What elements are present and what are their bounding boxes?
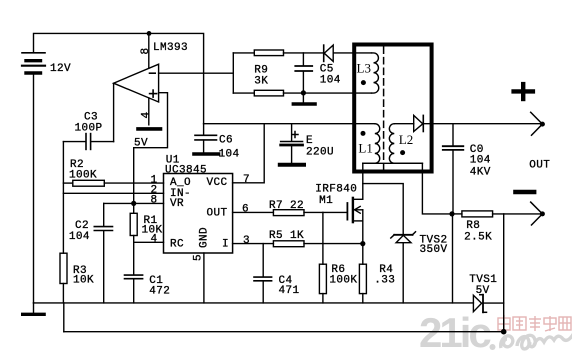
svg-text:220U: 220U: [306, 146, 334, 158]
svg-text:IRF840: IRF840: [315, 184, 357, 196]
svg-text:100K: 100K: [69, 170, 97, 182]
svg-text:L1: L1: [358, 141, 372, 156]
svg-text:100P: 100P: [75, 122, 103, 134]
svg-text:OUT: OUT: [529, 160, 550, 172]
svg-text:2.5K: 2.5K: [464, 232, 492, 244]
svg-text:471: 471: [279, 285, 300, 297]
svg-text:OUT: OUT: [207, 207, 228, 219]
svg-text:5V: 5V: [476, 285, 490, 297]
svg-text:104: 104: [470, 155, 491, 167]
svg-text:R8: R8: [466, 220, 480, 232]
svg-text:3: 3: [243, 235, 250, 247]
svg-text:E: E: [306, 135, 313, 147]
svg-text:.33: .33: [374, 275, 395, 287]
svg-text:L3: L3: [357, 61, 371, 76]
svg-text:5V: 5V: [134, 137, 148, 149]
svg-text:8: 8: [151, 195, 158, 207]
svg-text:104: 104: [320, 74, 341, 86]
svg-text:104: 104: [69, 231, 90, 243]
svg-text:I: I: [222, 238, 229, 250]
svg-text:100K: 100K: [329, 275, 357, 287]
svg-text:4: 4: [141, 111, 153, 118]
svg-text:350V: 350V: [420, 244, 448, 256]
svg-text:L2: L2: [399, 132, 413, 147]
svg-text:4KV: 4KV: [470, 167, 491, 179]
svg-text:12V: 12V: [50, 63, 71, 75]
svg-text:4: 4: [151, 233, 158, 245]
svg-text:7: 7: [243, 174, 250, 186]
svg-text:104: 104: [219, 148, 240, 160]
svg-text:472: 472: [149, 286, 170, 298]
svg-text:3K: 3K: [254, 75, 268, 87]
svg-text:UC3845: UC3845: [165, 164, 207, 176]
svg-text:RC: RC: [170, 238, 184, 250]
svg-text:GND: GND: [199, 227, 211, 248]
svg-text:8: 8: [140, 47, 152, 54]
svg-text:10K: 10K: [73, 275, 94, 287]
svg-text:5: 5: [193, 254, 205, 261]
svg-text:TVS1: TVS1: [469, 274, 497, 286]
svg-text:R7 22: R7 22: [269, 200, 304, 212]
svg-text:LM393: LM393: [153, 42, 188, 54]
svg-text:M1: M1: [319, 195, 333, 207]
svg-text:6: 6: [242, 204, 249, 216]
svg-text:VR: VR: [170, 198, 184, 210]
svg-text:C6: C6: [219, 135, 233, 147]
svg-text:VCC: VCC: [207, 177, 228, 189]
svg-text:R5 1K: R5 1K: [269, 230, 304, 242]
